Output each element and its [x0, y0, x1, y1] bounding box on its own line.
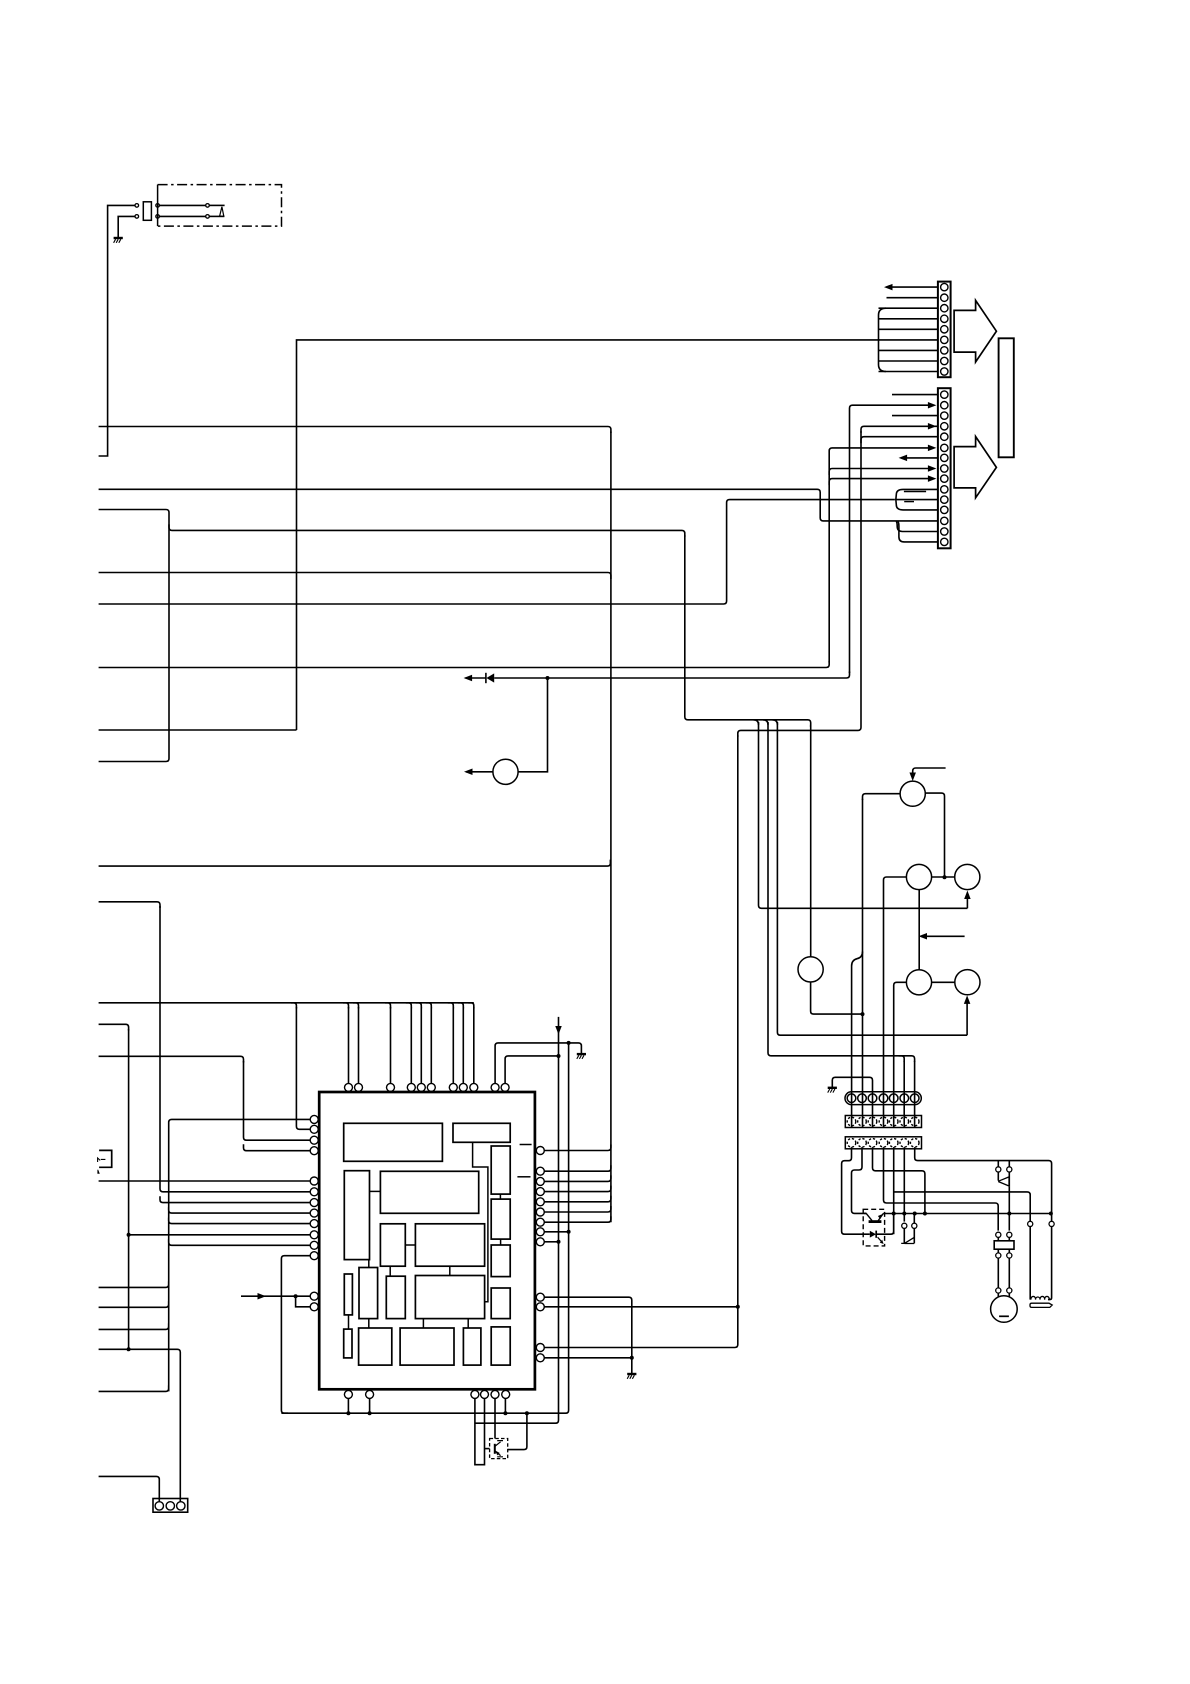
- IC1 internal block 11: [359, 1268, 378, 1319]
- IC1 internal block 14: [491, 1288, 510, 1319]
- IC1 top pin 7: [449, 1083, 457, 1091]
- resonator X1: [99, 1150, 112, 1167]
- IC1 internal block 12: [386, 1276, 405, 1318]
- wire (to coil left lead): [894, 1192, 1030, 1221]
- wire (motor lead): [1008, 1258, 1010, 1288]
- IC internal wire: [389, 1266, 391, 1276]
- sensor pin b: [206, 215, 210, 219]
- CN2 pin 2: [941, 294, 948, 301]
- motor M1: [991, 1296, 1018, 1323]
- IC1 internal block 8: [415, 1224, 484, 1266]
- arrow (out): [884, 284, 893, 291]
- wire (Q5-Q6): [932, 981, 955, 983]
- IC1 internal block 5: [491, 1146, 510, 1194]
- wire: [1008, 1293, 1010, 1297]
- CN6 pin 2: [912, 1223, 917, 1228]
- wire (CN5 pin6 to pair): [903, 1147, 905, 1222]
- CN5 pin 5: [889, 1139, 898, 1148]
- wire (V684 down, across to drop x810): [685, 535, 811, 727]
- wire (bus into PC1): [864, 1212, 866, 1214]
- CN3 pin1 wire: [892, 394, 938, 396]
- wire (V296 up and across to CN2 fan): [297, 340, 880, 730]
- IC1 top pin 4: [407, 1083, 415, 1091]
- CN3 pin 5: [941, 433, 948, 440]
- wire (peel): [291, 1003, 297, 1009]
- IC1 top pin 6: [427, 1083, 435, 1091]
- transistor Q6: [955, 970, 980, 995]
- wire (drop x777 to Q6 feed): [777, 722, 967, 1035]
- CN3 pin 10: [941, 486, 948, 493]
- IC1 internal block 18: [463, 1328, 481, 1365]
- node: [630, 1356, 634, 1360]
- wire (peel): [448, 1003, 454, 1009]
- IC1 bottom pin 4: [481, 1390, 489, 1398]
- wire: [466, 677, 486, 679]
- IC1 internal block 7: [380, 1224, 405, 1266]
- wire (CN5 pin1 to PC1 LED): [842, 1147, 870, 1234]
- wire (margin merge into bus V610): [99, 573, 611, 580]
- node: [1007, 1212, 1011, 1216]
- wire: [159, 204, 205, 206]
- arrow (in): [928, 445, 937, 452]
- wire from CN1 pin1 to left edge: [99, 205, 135, 456]
- CN8 pin 1: [155, 1502, 163, 1510]
- IC1 bottom pin 3: [471, 1390, 479, 1398]
- wire (to IC top pin): [473, 1007, 475, 1083]
- wire (peel): [416, 1003, 422, 1009]
- IC internal wire: [348, 1315, 350, 1329]
- wire (V861 down, left, drop x737): [738, 431, 861, 737]
- CN5 pin 6: [900, 1139, 909, 1148]
- antenna coil L1: [1031, 1296, 1049, 1299]
- IC1 bottom pin 2: [366, 1390, 374, 1398]
- IC1 top pin 5: [417, 1083, 425, 1091]
- IC1 right pin 1: [536, 1147, 544, 1155]
- CN2 pin 5: [941, 326, 948, 333]
- wire: [997, 1237, 999, 1240]
- IC1 top pin 9: [470, 1083, 478, 1091]
- arrow: [919, 933, 928, 940]
- IC1 right pin 9: [536, 1238, 544, 1246]
- CN4 jack pin 5: [889, 1117, 898, 1126]
- IC1 left pin 8: [310, 1209, 318, 1217]
- wire (V3 to IC pin): [169, 1239, 311, 1245]
- node: [346, 1411, 350, 1415]
- wire (margin to V1): [99, 1024, 129, 1030]
- IC1 top pin 3: [387, 1083, 395, 1091]
- wire: [209, 204, 224, 206]
- CN3 pin13 wire: [894, 520, 938, 522]
- node: [736, 1305, 740, 1309]
- CN2 pin 8 wire: [879, 360, 938, 362]
- wire: [997, 1161, 999, 1167]
- wire (V160 to IC pin): [160, 906, 310, 1192]
- wire (drop x758 to Q3 base line): [759, 722, 968, 908]
- wire (to IC top pin): [462, 1007, 464, 1083]
- capacitor C1: [994, 1241, 1014, 1249]
- node: [368, 1411, 372, 1415]
- node: [943, 875, 947, 879]
- wire (jog to row pin1): [852, 952, 863, 1128]
- X1 glyph: [98, 1158, 106, 1162]
- IC1 internal block 1: [344, 1123, 443, 1161]
- arrow (in): [928, 465, 937, 472]
- IC stub: [517, 1176, 530, 1178]
- arrow (in): [928, 423, 937, 430]
- wire (peel): [772, 720, 777, 725]
- wire (peel): [385, 1003, 391, 1009]
- IR detector D1: [220, 207, 224, 216]
- wire (IC right pin9): [544, 1241, 558, 1243]
- CN6 polarity symbol: [901, 1237, 914, 1243]
- wire (IC right pin to bus): [544, 1196, 611, 1202]
- IC1 left pin 11: [310, 1241, 318, 1249]
- wire (Q2 bottom to Q5 top): [918, 890, 920, 970]
- wire (peel): [754, 720, 759, 725]
- CN3 pin 15: [941, 538, 948, 545]
- capacitor lead pin: [996, 1253, 1001, 1258]
- PC1 LED: [870, 1231, 883, 1243]
- CN3 pin10 wire: [896, 489, 938, 499]
- IC internal wire: [467, 1319, 469, 1328]
- CN7 polarity symbol: [998, 1177, 1009, 1186]
- IC1 microcontroller body: [319, 1092, 535, 1389]
- ground: [828, 1088, 837, 1093]
- CN3 pin8 wire: [829, 469, 929, 476]
- CN1 pin 1 (outside): [135, 204, 139, 208]
- CN2 pin1 wire: [886, 286, 938, 288]
- wire (V568 feed line / line A): [281, 1043, 568, 1413]
- wire (Q2-Q3): [932, 876, 955, 878]
- IC1 left pin 12: [310, 1252, 318, 1260]
- wire (margin to CN8 pin1): [99, 1476, 160, 1501]
- wire (to driver circle): [518, 678, 547, 772]
- arrow (into Q3): [964, 891, 971, 900]
- wire (top pin bus from margin): [99, 1002, 474, 1004]
- node: [567, 1230, 571, 1234]
- wire (margin to CN3 pins10-12 fan): [99, 500, 895, 604]
- CN2 pin 1: [941, 283, 948, 290]
- wire (margin to CN3 pin13 fan): [99, 489, 894, 521]
- wire (drop x768 to row feeds): [768, 722, 915, 1062]
- wire (margin to V160): [99, 902, 160, 908]
- CN4 plug pin 6: [900, 1094, 909, 1103]
- CN2 pin 3 wire: [879, 307, 938, 309]
- CN4 plug pin 3: [868, 1094, 877, 1103]
- wire: [159, 215, 205, 217]
- CN2 pin 4 wire: [879, 318, 938, 320]
- CN2 pin 7 wire: [879, 349, 938, 351]
- IC1 internal block 13: [415, 1276, 484, 1319]
- wire from CN1 pin2 to ground: [118, 216, 135, 237]
- IC1 top pin 2: [355, 1083, 363, 1091]
- CN3 pin5 wire: [861, 437, 938, 444]
- CN2 pin 9: [941, 368, 948, 375]
- wire (IC top pin11): [505, 1056, 558, 1084]
- wire (V1 to IC pin): [129, 1234, 311, 1236]
- Q8 transistor glyph: [495, 1441, 503, 1457]
- IC1 internal block 10: [344, 1274, 352, 1315]
- CN3 pin14 wire: [896, 521, 938, 531]
- IC1 internal block 9: [491, 1245, 510, 1277]
- wire (margin to V243): [99, 1056, 244, 1062]
- CN4 plug pin 5: [889, 1094, 898, 1103]
- IC1 right pin 7: [536, 1218, 544, 1226]
- capacitor lead pin: [1007, 1232, 1012, 1237]
- CN3 pin 3: [941, 412, 948, 419]
- IC1 internal block 16: [359, 1328, 392, 1365]
- CN2 fan bus: [879, 308, 887, 371]
- bus V610 vertical: [610, 432, 612, 1223]
- IC1 top pin 11: [501, 1083, 509, 1091]
- coil pin: [1049, 1221, 1054, 1226]
- IC1 right pin 12: [536, 1344, 544, 1352]
- IC stub: [520, 1144, 532, 1146]
- wire (V3 to IC pin): [169, 1218, 311, 1224]
- wire (IC pin to A): [504, 1398, 506, 1413]
- CN3 pin12 wire: [896, 500, 938, 510]
- CN5 pin 1: [847, 1139, 856, 1148]
- wire: [1008, 1161, 1010, 1167]
- motor pin 2: [1007, 1288, 1012, 1293]
- node: [567, 1041, 571, 1045]
- CN5 pin 2: [858, 1139, 867, 1148]
- CN6 pin 1: [902, 1223, 907, 1228]
- CN4 jack pin 1: [847, 1117, 856, 1126]
- IC1 right pin 3: [536, 1177, 544, 1185]
- CN2 pin 9 wire: [879, 371, 938, 373]
- capacitor lead pin: [996, 1232, 1001, 1237]
- CN4 jack pin 3: [868, 1117, 877, 1126]
- CN3 pin 7: [941, 454, 948, 461]
- wire (drop x810 into Q4): [810, 725, 812, 957]
- CN2 pin 6: [941, 336, 948, 343]
- IC internal wire: [473, 1142, 488, 1302]
- wire (peel): [353, 1003, 359, 1009]
- IC1 internal block 2: [453, 1123, 510, 1142]
- node: [923, 1212, 927, 1216]
- CN7 pin 2: [1007, 1167, 1012, 1172]
- IC1 left pin 7: [310, 1199, 318, 1207]
- IC internal wire: [500, 1239, 502, 1245]
- wire (to IC top pin): [420, 1007, 422, 1083]
- wire (IC right pin to bus): [544, 1206, 611, 1212]
- CN3 pin 6: [941, 444, 948, 451]
- CN1 pin 1 (module side): [156, 204, 160, 208]
- CN4 jack pin 4: [879, 1117, 888, 1126]
- CN3 pin 12: [941, 506, 948, 513]
- wire (row pin3 to ground): [832, 1077, 872, 1127]
- wire (IC right pin to bus): [544, 1175, 611, 1181]
- IC internal wire: [405, 1244, 415, 1246]
- transistor Q4: [798, 957, 823, 982]
- wire (peel): [406, 1003, 412, 1009]
- wire (IC right pin to bus): [544, 1145, 611, 1151]
- wire (stub to Q8): [485, 1448, 490, 1450]
- wire (diode line up to CN3 pin2): [494, 672, 849, 679]
- wire (to IC top pin): [452, 1007, 454, 1083]
- IC internal wire: [370, 1190, 381, 1192]
- CN4 plug pin 7: [910, 1094, 919, 1103]
- wire: [966, 894, 968, 909]
- wire: [1008, 1237, 1010, 1240]
- wire (Q4 bottom to node): [811, 982, 863, 1014]
- wire (peel): [426, 1003, 432, 1009]
- wire (peel): [458, 1003, 464, 1009]
- CN3 pin2 wire: [850, 405, 930, 673]
- wire (coil left lead): [1029, 1227, 1031, 1300]
- CN3 pin3 wire: [892, 415, 938, 417]
- arrow (output): [464, 769, 473, 776]
- buzzer driver Q7: [493, 759, 518, 784]
- CN3 pin 11: [941, 496, 948, 503]
- node: [557, 1240, 561, 1244]
- wire (IC right pin): [544, 1357, 632, 1359]
- CN3 pin 2: [941, 402, 948, 409]
- wire (IC top pin10 to ground): [495, 1043, 581, 1084]
- IC internal wire: [368, 1260, 370, 1268]
- IC1 left pin 10: [310, 1231, 318, 1239]
- connector CN2 body: [938, 282, 951, 378]
- wire (IC right pin to bus): [544, 1165, 611, 1171]
- wire (margin, bottom of V296): [99, 729, 297, 731]
- IC1 internal block 19: [491, 1327, 510, 1365]
- IC1 right pin 8: [536, 1228, 544, 1236]
- wire (V243 to IC pin): [244, 1144, 311, 1151]
- CN3 pin 9: [941, 475, 948, 482]
- wire (to IC top pin): [390, 1007, 392, 1083]
- connector CN4 jack body: [845, 1116, 921, 1128]
- wire (PC1 LED cathode up to bus): [876, 1214, 894, 1235]
- block arrow (to display unit): [954, 437, 996, 498]
- node: [127, 1347, 131, 1351]
- CN3 pin6 wire: [829, 448, 929, 663]
- wire (peel): [343, 1003, 349, 1009]
- arrow (signal out): [464, 675, 473, 682]
- CN4 jack pin 6: [900, 1117, 909, 1126]
- connector CN3 body: [938, 388, 951, 548]
- remote sensor module left edge: [157, 185, 159, 227]
- wire: [1008, 1249, 1010, 1253]
- wire (U loop pins): [475, 1398, 485, 1464]
- wire (V862 down through rows): [862, 799, 864, 1128]
- capacitor lead pin: [1007, 1253, 1012, 1258]
- wire (margin to V3): [99, 1323, 169, 1329]
- IC internal wire: [499, 1194, 501, 1199]
- wire: [903, 1228, 905, 1243]
- ferrite core bar: [1030, 1303, 1052, 1307]
- wire (A to Q8 right): [508, 1413, 527, 1449]
- PC1 phototransistor: [866, 1213, 883, 1221]
- transistor Q8 (dashed box): [490, 1439, 508, 1459]
- wire (margin merge into bus V610): [99, 860, 611, 867]
- wire (V296 to IC left pin): [296, 1007, 310, 1129]
- CN2 pin2 wire: [887, 297, 938, 299]
- CN3 pin9 wire: [829, 479, 929, 486]
- wire (CN5 pin5 to bus node): [893, 1147, 895, 1234]
- IC1 right pin 2: [536, 1167, 544, 1175]
- CN5 pin 7: [910, 1139, 919, 1148]
- remote sensor module (dash-dot box): [158, 185, 282, 227]
- polarity mark: [904, 491, 926, 493]
- IC1 right pin 5: [536, 1198, 544, 1206]
- CN2 pin 4: [941, 315, 948, 322]
- CN3 pin 8: [941, 465, 948, 472]
- node: [503, 1411, 507, 1415]
- CN3 pin 14: [941, 528, 948, 535]
- motor mark: [999, 1315, 1009, 1317]
- wire (feed): [913, 768, 946, 779]
- IC1 right pin 10: [536, 1293, 544, 1301]
- wire (V3 to IC pin): [169, 1207, 311, 1213]
- wire (margin to IC pin): [99, 1180, 311, 1182]
- wire: [1051, 1214, 1053, 1222]
- node: [127, 1233, 131, 1237]
- arrow (into Q1): [909, 773, 916, 782]
- IC1 left pin 5: [310, 1177, 318, 1185]
- IC1 left pin 6: [310, 1188, 318, 1196]
- wire (CN5 pin2 to PC1 collector): [852, 1147, 867, 1213]
- CN4 plug pin 2: [858, 1094, 867, 1103]
- wire (margin to V3): [99, 1281, 169, 1287]
- wire: [913, 1228, 915, 1243]
- wire (Q2 left down): [884, 877, 907, 1128]
- arrow (in): [258, 1293, 267, 1300]
- arrow (feed): [555, 1026, 562, 1035]
- IC1 right pin 13: [536, 1354, 544, 1362]
- CN3 pin7 wire: [901, 457, 938, 459]
- block arrow (to display unit): [954, 300, 996, 362]
- wire (CN5 pin3 to bus): [873, 1147, 925, 1213]
- IC1 internal block 4: [380, 1171, 478, 1213]
- IC1 internal block 3: [344, 1171, 369, 1260]
- wire (V160 to IC pin): [160, 1196, 310, 1202]
- sensor pin a: [206, 204, 210, 208]
- wire (feed): [921, 935, 965, 937]
- node: [892, 1212, 896, 1216]
- IC1 internal block 17: [400, 1328, 454, 1365]
- CN4 jack pin 2: [858, 1117, 867, 1126]
- wire (IC bottom pin to A): [369, 1398, 371, 1413]
- polarity mark: [904, 501, 914, 503]
- wire (margin loop via V169): [99, 510, 169, 762]
- CN3 pin 13: [941, 517, 948, 524]
- IC internal wire: [449, 1266, 451, 1275]
- wire (V243 to IC pin): [244, 1061, 311, 1140]
- wire (coil right lead): [1048, 1227, 1052, 1300]
- arrow (out): [899, 455, 908, 462]
- wire (to IC top pin): [348, 1007, 350, 1083]
- CN3 pin4 wire: [861, 426, 938, 433]
- IC1 internal block 6: [491, 1199, 510, 1239]
- node: [1049, 1212, 1053, 1216]
- IC1 left pin 14: [310, 1303, 318, 1311]
- IC1 left pin 2: [310, 1125, 318, 1133]
- transistor Q1: [900, 781, 925, 806]
- wire: [913, 1214, 915, 1224]
- IC1 internal block 15: [344, 1329, 352, 1358]
- wire (IC pin to Q8 top): [494, 1398, 496, 1438]
- CN8 pin 3: [177, 1502, 185, 1510]
- wire (margin to bus V610): [99, 427, 611, 434]
- wire (to IC top pin): [430, 1007, 432, 1083]
- wire: [1008, 1172, 1010, 1187]
- CN2 pin 8: [941, 357, 948, 364]
- CN3 pin15 wire: [898, 521, 938, 542]
- IC1 bottom pin 6: [502, 1390, 510, 1398]
- arrow (into Q6): [964, 995, 971, 1004]
- connector CN4 plug body: [845, 1092, 921, 1105]
